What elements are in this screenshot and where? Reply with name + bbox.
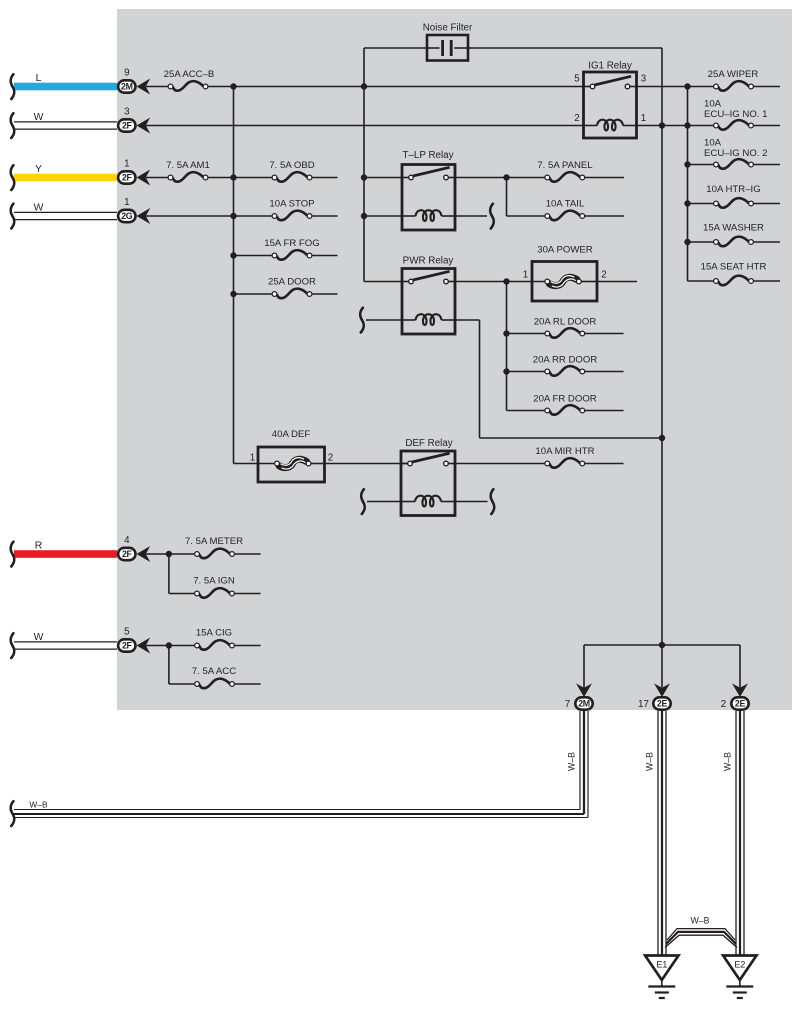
junction dot METER/IGN branch xyxy=(166,551,172,557)
svg-text:Y: Y xyxy=(35,164,42,175)
junction dot row C / x364 vertical xyxy=(361,174,367,180)
fuse 20A FR DOOR xyxy=(533,394,597,415)
svg-text:15A CIG: 15A CIG xyxy=(196,628,232,639)
svg-text:15A FR FOG: 15A FR FOG xyxy=(264,238,319,249)
wire row C: OBD fuse stub xyxy=(312,177,337,179)
junction dot row A / left bus xyxy=(230,83,236,89)
fuse 15A FR FOG xyxy=(264,238,319,260)
wire Y (left lead at y=177.5) xyxy=(11,164,117,190)
wire: DEF relay to MIR HTR fuse xyxy=(455,463,545,465)
svg-text:2: 2 xyxy=(721,699,726,710)
svg-text:7: 7 xyxy=(565,699,570,710)
junction dot row B / ground vertical x662 xyxy=(659,122,665,128)
wire row D: STOP fuse stub xyxy=(312,215,337,217)
junction dot row D / left bus xyxy=(230,213,236,219)
relay IG1 pin numbers xyxy=(574,74,647,125)
svg-text:2E: 2E xyxy=(657,699,668,709)
junction dot row B / right bus xyxy=(684,122,690,128)
svg-text:PWR Relay: PWR Relay xyxy=(403,256,454,267)
wire: 20A RL DOOR fuse stub xyxy=(585,333,624,335)
svg-text:DEF Relay: DEF Relay xyxy=(405,438,452,449)
wire: 20A RR DOOR fuse stub xyxy=(585,371,624,373)
connector 2F pin 3 (left) xyxy=(118,107,150,134)
relay DEF switch contacts xyxy=(401,453,455,466)
wire: 15A SEAT HTR fuse stub xyxy=(754,280,780,282)
svg-text:E2: E2 xyxy=(734,960,745,970)
svg-text:7. 5A AM1: 7. 5A AM1 xyxy=(166,160,210,171)
fuse 7. 5A METER xyxy=(185,536,243,558)
svg-text:15A SEAT HTR: 15A SEAT HTR xyxy=(701,261,767,272)
wire W (left lead at y=645.5) xyxy=(11,632,117,658)
fuse 7. 5A OBD xyxy=(269,160,314,182)
junction dot right bus / 10A HTR–IG xyxy=(684,200,690,206)
svg-text:2: 2 xyxy=(601,270,606,281)
fuse 10A MIR HTR xyxy=(535,446,594,468)
fusible link 40A DEF xyxy=(250,429,333,482)
wire row C: connector 2F to fuse AM1 xyxy=(146,177,168,179)
wire: CIG fuse stub xyxy=(235,645,261,647)
junction dot row A / x364 vertical xyxy=(361,83,367,89)
relay DEF box xyxy=(401,451,455,516)
relay IG1 box xyxy=(584,72,637,138)
break squiggle T-LP coil lead xyxy=(490,204,494,229)
wire W-B from connector 2E pin17 to ground E1 xyxy=(658,711,666,955)
wire row F: DOOR fuse stub xyxy=(312,293,337,295)
svg-text:W: W xyxy=(34,632,44,643)
svg-text:25A WIPER: 25A WIPER xyxy=(708,69,759,80)
wire: door bus to 20A RR DOOR fuse xyxy=(507,371,545,373)
junction dot row D / x364 vertical xyxy=(361,213,367,219)
junction block background xyxy=(117,9,792,710)
wire: 20A FR DOOR fuse stub xyxy=(585,410,624,412)
wire: MIR HTR fuse stub xyxy=(585,463,624,465)
svg-text:W: W xyxy=(34,112,44,123)
svg-text:10A MIR HTR: 10A MIR HTR xyxy=(535,446,594,457)
svg-text:2M: 2M xyxy=(578,699,590,709)
wire row D: T-LP coil out to break xyxy=(455,215,487,217)
svg-text:2: 2 xyxy=(574,113,579,124)
wire row A: connector 2M to fuse ACC-B xyxy=(146,86,168,88)
svg-text:9: 9 xyxy=(124,68,129,79)
fuse 10A STOP xyxy=(269,199,314,221)
wire: bottom ground header y=645 xyxy=(584,644,740,646)
relay T–LP coil xyxy=(402,210,455,221)
svg-text:3: 3 xyxy=(124,107,130,118)
fuse 10A/ECU–IG NO. 2 xyxy=(704,138,767,169)
connector 2E pin 17 (bottom) xyxy=(638,683,671,709)
svg-text:W–B: W–B xyxy=(690,916,709,926)
svg-text:2F: 2F xyxy=(122,173,133,183)
wire row F: left bus to DOOR fuse xyxy=(234,293,272,295)
wire: right bus to 15A SEAT HTR fuse xyxy=(688,280,714,282)
svg-text:T–LP Relay: T–LP Relay xyxy=(402,150,453,161)
wire W (left lead at y=216.0) xyxy=(11,203,117,229)
svg-text:E1: E1 xyxy=(656,960,667,970)
relay T–LP switch contacts xyxy=(402,167,455,180)
wire: IGN fuse stub xyxy=(235,593,261,595)
wire row A: WIPER fuse stub xyxy=(754,86,780,88)
fuse 25A ACC-B xyxy=(164,69,215,91)
junction dot CIG/ACC branch xyxy=(166,642,172,648)
svg-text:1: 1 xyxy=(124,159,129,170)
connector 2M pin 9 (left) xyxy=(118,68,150,95)
svg-text:4: 4 xyxy=(124,535,130,546)
wire row C: T-LP relay to PANEL fuse xyxy=(455,177,545,179)
svg-text:1: 1 xyxy=(124,197,129,208)
wire: PWR relay pin to 30A POWER fuse xyxy=(455,281,545,283)
svg-text:5: 5 xyxy=(574,74,580,85)
fuse 20A RL DOOR xyxy=(534,317,597,338)
relay IG1 switch contacts xyxy=(584,76,637,88)
fuse 7. 5A PANEL xyxy=(537,160,593,182)
wire row C: x364 vertical to T-LP relay pin xyxy=(364,177,402,179)
fuse 15A CIG xyxy=(195,628,235,650)
svg-text:30A POWER: 30A POWER xyxy=(537,245,593,256)
svg-text:10A: 10A xyxy=(704,99,722,110)
svg-text:ECU–IG NO. 2: ECU–IG NO. 2 xyxy=(704,148,767,159)
wire: DEF coil left lead with break xyxy=(361,489,401,514)
svg-text:1: 1 xyxy=(523,270,528,281)
ground E1 xyxy=(645,956,678,999)
svg-text:7. 5A IGN: 7. 5A IGN xyxy=(193,576,235,587)
svg-text:7. 5A OBD: 7. 5A OBD xyxy=(269,160,314,171)
svg-text:7. 5A PANEL: 7. 5A PANEL xyxy=(537,160,593,171)
wire: 10A HTR–IG fuse stub xyxy=(754,203,780,205)
fuse 10A TAIL xyxy=(545,199,585,221)
wire: METER fuse stub xyxy=(235,553,261,555)
wire row C: fuse AM1 to fuse OBD xyxy=(208,177,272,179)
wire: DEF coil right lead with break xyxy=(455,489,494,514)
wire: drop to connector 2M pin 7 xyxy=(583,645,585,688)
svg-text:15A WASHER: 15A WASHER xyxy=(703,222,764,233)
svg-text:40A DEF: 40A DEF xyxy=(272,429,311,440)
relay PWR box xyxy=(402,269,455,335)
wire row C: PANEL fuse stub xyxy=(585,177,624,179)
vertical wire x364 (noise filter to PWR relay) xyxy=(364,48,402,282)
wire W-B link between E1 and E2 drops xyxy=(665,916,737,948)
svg-text:ECU–IG NO. 1: ECU–IG NO. 1 xyxy=(704,109,767,120)
door bus vertical x=506.5 xyxy=(506,282,508,411)
junction dot right bus / 15A WASHER xyxy=(684,239,690,245)
wire: connector 2F pin5 to CIG fuse xyxy=(146,645,194,647)
fuse 15A SEAT HTR xyxy=(701,261,767,285)
wire: door bus to 20A RL DOOR fuse xyxy=(507,333,545,335)
wire: 10A/ECU–IG NO. 2 fuse stub xyxy=(754,164,780,166)
junction dot row E / left bus xyxy=(230,252,236,258)
junction dot door bus / 20A RR DOOR xyxy=(503,368,509,374)
connector 2M pin 7 (bottom) xyxy=(565,683,593,709)
svg-text:3: 3 xyxy=(641,74,647,85)
fuse 7. 5A IGN xyxy=(193,576,235,598)
relay T–LP box xyxy=(402,165,455,231)
svg-text:2F: 2F xyxy=(122,641,133,651)
wire row A: fuse ACC-B to IG1 relay pin 5 xyxy=(208,86,583,88)
wire: branch down to IGN fuse xyxy=(169,554,194,594)
svg-text:2E: 2E xyxy=(735,699,746,709)
svg-text:W–B: W–B xyxy=(723,752,733,771)
connector 2F pin 1 (left) xyxy=(118,159,150,186)
wire: noise filter left lead to x364 vertical xyxy=(364,47,427,49)
svg-text:W–B: W–B xyxy=(29,800,48,810)
svg-text:W–B: W–B xyxy=(645,752,655,771)
right fuse bus vertical x=687.5 xyxy=(687,87,689,282)
wire W-B from connector 2E pin2 to ground E2 xyxy=(736,711,744,955)
junction dot right bus / 10A/ECU–IG NO. 2 xyxy=(684,161,690,167)
wire: right bus to 10A/ECU–IG NO. 2 fuse xyxy=(688,164,714,166)
svg-text:W: W xyxy=(34,203,44,214)
wire: ACC fuse stub xyxy=(235,683,261,685)
svg-text:2F: 2F xyxy=(122,549,133,559)
wire: drop to connector 2E pin 2 xyxy=(739,645,741,688)
svg-text:R: R xyxy=(35,541,42,552)
wire row D: bus corner to TAIL fuse xyxy=(507,215,545,217)
junction dot ground header / x662 xyxy=(659,642,665,648)
wire: PWR coil left lead with break xyxy=(360,308,402,333)
svg-text:7. 5A METER: 7. 5A METER xyxy=(185,536,243,547)
wire: connector 2F pin4 to METER fuse xyxy=(146,553,194,555)
svg-text:2F: 2F xyxy=(122,121,133,131)
ground E2 xyxy=(723,956,756,999)
fuse 25A WIPER xyxy=(708,69,759,91)
svg-text:10A HTR–IG: 10A HTR–IG xyxy=(706,184,760,195)
svg-text:17: 17 xyxy=(638,699,649,710)
svg-text:25A DOOR: 25A DOOR xyxy=(268,277,316,288)
wire: noise filter right lead to ground vertical x662 xyxy=(468,47,662,49)
wire: door bus to 20A FR DOOR fuse xyxy=(507,410,545,412)
wire: 40A DEF to DEF relay xyxy=(325,463,411,465)
wire L (left lead at y=86.5) xyxy=(11,73,117,99)
svg-text:L: L xyxy=(36,73,42,84)
connector 2G pin 1 (left) xyxy=(118,197,150,224)
fuse 7.5A AM1 xyxy=(166,160,210,182)
svg-text:2: 2 xyxy=(328,453,333,464)
wire row D: x364 vertical to T-LP coil xyxy=(364,215,402,217)
svg-text:20A FR DOOR: 20A FR DOOR xyxy=(533,394,597,405)
svg-text:IG1 Relay: IG1 Relay xyxy=(588,61,632,72)
left bus vertical x=233.5 with corner to 40A DEF xyxy=(234,87,259,464)
ground vertical wire x662 (noise filter down to connector 2E) xyxy=(661,48,663,688)
junction dot PWR coil lead / ground vertical x662 xyxy=(659,435,665,441)
wire: 30A POWER stub right xyxy=(597,281,637,283)
svg-text:1: 1 xyxy=(641,113,646,124)
connector 2E pin 2 (bottom) xyxy=(721,683,749,709)
junction dot door bus / 20A RL DOOR xyxy=(503,330,509,336)
wire W-B from connector 2M to left edge xyxy=(11,711,588,826)
svg-text:20A RR DOOR: 20A RR DOOR xyxy=(533,355,598,366)
wire row D: TAIL fuse stub xyxy=(585,215,624,217)
wire: branch down to ACC fuse xyxy=(169,646,194,685)
svg-text:W–B: W–B xyxy=(567,752,577,771)
fuse 10A HTR–IG xyxy=(706,184,760,208)
relay PWR coil xyxy=(402,314,455,325)
junction dot door bus / row 281.5 xyxy=(503,278,509,284)
relay DEF coil xyxy=(401,496,455,507)
svg-text:2M: 2M xyxy=(121,82,133,92)
wire row E: FR FOG fuse stub xyxy=(312,255,337,257)
junction dot row F / left bus xyxy=(230,291,236,297)
svg-text:5: 5 xyxy=(124,627,130,638)
fuse 25A DOOR xyxy=(268,277,316,299)
wire: PWR coil right lead down to ground vertical xyxy=(455,320,662,438)
wire W (left lead at y=125.5) xyxy=(11,112,117,138)
connector 2F pin 5 (left) xyxy=(118,627,150,654)
svg-text:10A STOP: 10A STOP xyxy=(269,199,314,210)
fusible link 30A POWER xyxy=(523,245,607,302)
wire: right bus to 10A HTR–IG fuse xyxy=(688,203,714,205)
svg-text:25A ACC–B: 25A ACC–B xyxy=(164,69,215,80)
svg-text:1: 1 xyxy=(250,453,255,464)
svg-text:2G: 2G xyxy=(121,211,133,221)
wire row B: connector 2F to IG1 relay pin 2 xyxy=(146,125,584,127)
connector 2F pin 4 (left) xyxy=(118,535,150,562)
wire row B: IG1 pin 1 to ECU-IG NO.1 fuse xyxy=(637,125,714,127)
relay PWR switch contacts xyxy=(402,271,455,284)
junction dot row C / left bus xyxy=(230,174,236,180)
svg-text:Noise Filter: Noise Filter xyxy=(423,23,473,34)
junction dot row C / PANEL-TAIL bus xyxy=(503,174,509,180)
relay IG1 coil xyxy=(584,120,637,131)
wire row E: left bus to FR FOG fuse xyxy=(234,255,272,257)
fuse 7. 5A ACC xyxy=(192,666,236,688)
fuse 10A ECU-IG NO. 1 xyxy=(704,99,767,130)
svg-text:20A RL DOOR: 20A RL DOOR xyxy=(534,317,597,328)
junction dot row A / right bus xyxy=(684,83,690,89)
svg-text:10A TAIL: 10A TAIL xyxy=(546,199,585,210)
svg-text:7. 5A ACC: 7. 5A ACC xyxy=(192,666,236,677)
PANEL-TAIL bus vertical xyxy=(506,178,508,217)
wire: right bus to 15A WASHER fuse xyxy=(688,241,714,243)
wire R (left lead at y=554.0) xyxy=(11,541,117,567)
wire row B: ECU-IG NO.1 fuse stub xyxy=(754,125,780,127)
wire: 15A WASHER fuse stub xyxy=(754,241,780,243)
wire row D: connector 2G to left bus xyxy=(146,215,272,217)
fuse 20A RR DOOR xyxy=(533,355,598,376)
noise filter xyxy=(423,23,473,61)
svg-text:10A: 10A xyxy=(704,138,722,149)
fuse 15A WASHER xyxy=(703,222,764,246)
wire row A: IG1 pin 3 to WIPER fuse xyxy=(637,86,714,88)
